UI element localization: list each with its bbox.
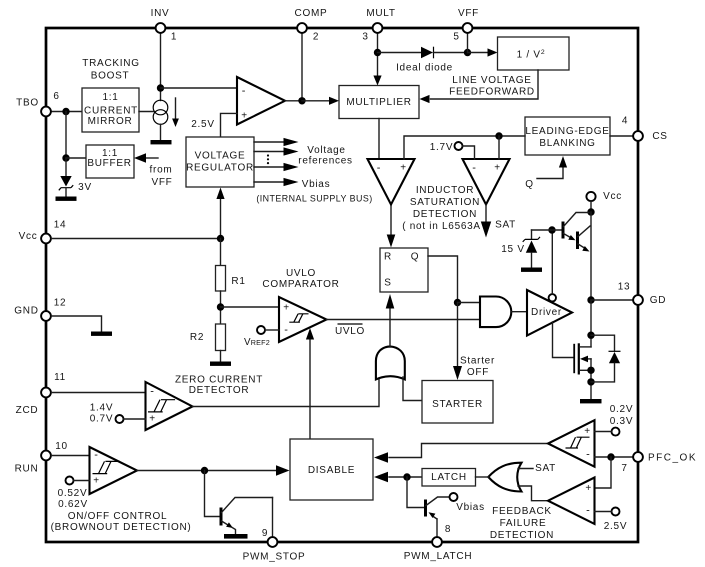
ground under 15V zener — [521, 268, 542, 272]
pin PFC_OK (7) — [621, 452, 697, 474]
svg-text:2.5V: 2.5V — [191, 119, 214, 130]
svg-text:9: 9 — [262, 528, 268, 539]
wire Q3 collector to PWM_STOP — [272, 498, 274, 538]
svg-text:4: 4 — [622, 115, 628, 126]
wire AND1 to driver — [511, 311, 527, 313]
wire TBO to current mirror — [52, 111, 83, 113]
node TBO junction — [62, 108, 69, 115]
svg-text:11: 11 — [54, 372, 66, 383]
wire current mirror to current source — [139, 111, 154, 113]
svg-text:LATCH: LATCH — [431, 472, 467, 483]
svg-text:PFC_OK: PFC_OK — [648, 453, 697, 464]
svg-text:COMPARATOR: COMPARATOR — [262, 279, 339, 290]
wire ZCD to comparator — [52, 392, 146, 394]
wire node to multiplier left with arrow — [302, 97, 339, 105]
wire SAT input to OR2 — [518, 463, 556, 474]
node R1/R2 divider — [217, 303, 224, 310]
label UVLO COMPARATOR — [262, 268, 339, 290]
svg-text:Vcc: Vcc — [19, 231, 38, 242]
svg-text:0.2V: 0.2V — [610, 404, 633, 415]
block MULTIPLIER — [339, 86, 419, 119]
svg-text:ON/OFF CONTROL: ON/OFF CONTROL — [68, 511, 168, 522]
transistor Q2 (lower NPN) — [578, 226, 591, 252]
svg-text:PWM_LATCH: PWM_LATCH — [404, 551, 473, 562]
svg-text:+: + — [584, 426, 591, 437]
svg-text:12: 12 — [54, 298, 67, 309]
node diode return junction — [587, 378, 594, 385]
svg-text:+: + — [400, 163, 407, 174]
svg-text:ZCD: ZCD — [16, 405, 39, 416]
ideal diode D1 — [396, 47, 453, 74]
svg-text:SATURATION: SATURATION — [410, 197, 480, 208]
svg-text:DETECTOR: DETECTOR — [189, 385, 250, 396]
resistor R1 — [216, 266, 246, 292]
svg-text:VREF2: VREF2 — [244, 337, 270, 348]
node Vcc junction — [217, 235, 224, 242]
svg-text:-: - — [150, 386, 154, 398]
wire node to buffer — [66, 157, 86, 159]
wire node to transistor base — [205, 471, 220, 517]
arrow SAT output — [481, 205, 516, 238]
wire source to ground — [590, 359, 592, 399]
reference VREF2 — [244, 326, 279, 348]
wire node to saturation comparator — [498, 136, 500, 159]
svg-text:1:1: 1:1 — [102, 92, 118, 103]
node GD junction — [587, 296, 594, 303]
svg-text:1: 1 — [171, 32, 177, 43]
wire R1 to node — [220, 291, 222, 324]
svg-text:+: + — [283, 303, 290, 314]
svg-text:GND: GND — [14, 306, 38, 317]
wire VFF node to 1/V2 block — [468, 48, 498, 56]
svg-text:-: - — [284, 324, 288, 336]
wire Vcc node down to R1 — [220, 239, 222, 266]
svg-text:+: + — [494, 163, 501, 174]
wire COMP vertical — [301, 33, 303, 101]
wire ZCD output to OR gate — [193, 377, 380, 407]
pin TBO (6) — [16, 91, 60, 116]
arrow Vbias — [254, 178, 330, 190]
svg-text:UVLO: UVLO — [335, 326, 365, 337]
op-amp E/A error amplifier — [237, 77, 285, 125]
svg-text:Q: Q — [411, 252, 420, 263]
flip-flop FF1 (PWM latch) — [380, 248, 428, 292]
svg-text:REGULATOR: REGULATOR — [186, 163, 254, 174]
wire VFF vertical — [467, 33, 469, 53]
comparator feedback failure (pointing left) — [548, 478, 595, 524]
svg-text:TBO: TBO — [16, 97, 39, 108]
wire DISABLE to UVLO comparator with arrow — [306, 328, 314, 439]
wire GND to ground — [52, 316, 102, 332]
label Voltage references — [298, 145, 352, 167]
svg-text:( not in L6563A ): ( not in L6563A ) — [402, 221, 488, 232]
wire ideal diode to VFF node — [434, 52, 468, 54]
block 1/V2 — [498, 37, 570, 70]
comparator ON/OFF control — [90, 447, 138, 494]
block 1:1 CURRENT MIRROR — [82, 88, 139, 132]
wire Q output — [428, 256, 458, 303]
svg-text:R1: R1 — [231, 276, 245, 287]
svg-text:13: 13 — [618, 282, 631, 293]
svg-text:FEEDFORWARD: FEEDFORWARD — [449, 87, 535, 98]
svg-text:BOOST: BOOST — [91, 70, 130, 81]
label UVLO net — [335, 324, 365, 337]
wire current source to ground — [160, 124, 162, 140]
pin VFF (5) — [453, 8, 479, 43]
node source junction — [587, 367, 594, 374]
wire LEB to comparators — [404, 136, 525, 159]
wire divider to UVLO comparator — [221, 306, 280, 308]
transistor Q4 (PWM_LATCH PNP) — [426, 497, 450, 537]
svg-text:DETECTION: DETECTION — [413, 209, 477, 220]
wire to GD pin — [591, 299, 633, 301]
wire PFC_OK sense — [595, 456, 633, 458]
svg-text:-: - — [586, 505, 590, 517]
node run output junction — [201, 467, 208, 474]
wire OR1 right input to STARTER — [403, 377, 422, 401]
svg-text:RUN: RUN — [15, 463, 39, 474]
svg-text:FAILURE: FAILURE — [500, 518, 547, 529]
label TRACKING BOOST — [82, 58, 139, 81]
wire PFC_OK comparator to DISABLE with arrow — [374, 444, 548, 463]
wire PWM comparator to R with arrow — [387, 205, 396, 248]
svg-text:3V: 3V — [78, 182, 92, 193]
svg-text:Q: Q — [525, 179, 534, 190]
block LEADING-EDGE BLANKING — [525, 117, 610, 155]
wire MULT vertical — [377, 33, 379, 77]
wire zener to ground — [65, 188, 67, 197]
wire Q node to STARTER with arrow — [453, 303, 495, 381]
current source I1 — [153, 98, 179, 127]
diode body D2 — [591, 335, 621, 382]
label ZERO CURRENT DETECTOR — [175, 375, 263, 397]
pin GND (12) — [14, 298, 66, 321]
reference 0.2V/0.3V — [595, 404, 634, 436]
svg-text:0.52V: 0.52V — [58, 488, 88, 499]
pin Vcc (14) — [19, 220, 67, 244]
wire latch node to Q4 — [407, 477, 424, 508]
node MULT junction — [374, 49, 381, 56]
svg-text:14: 14 — [54, 220, 67, 231]
wire node to feedback comparator — [595, 457, 612, 488]
ground GND pin — [91, 332, 112, 336]
comparator UVLO — [279, 297, 327, 342]
pin MULT (3) — [362, 8, 395, 43]
svg-text:5: 5 — [453, 32, 459, 43]
label INDUCTOR SATURATION DETECTION — [402, 185, 488, 232]
wire MULT node to ideal diode — [378, 52, 422, 54]
wire GD node to drain — [590, 300, 592, 347]
pin INV (1) — [151, 8, 178, 43]
svg-text:GD: GD — [650, 295, 666, 306]
svg-text:Driver: Driver — [531, 307, 562, 318]
svg-text:FEEDBACK: FEEDBACK — [492, 506, 552, 517]
wire totem output vertical — [590, 212, 592, 300]
label FEEDBACK FAILURE DETECTION — [490, 506, 554, 541]
node PFC_OK junction — [607, 453, 614, 460]
svg-text:UVLO: UVLO — [286, 268, 316, 279]
pin COMP (2) — [295, 8, 328, 43]
svg-text:0.62V: 0.62V — [58, 499, 88, 510]
svg-text:-: - — [242, 85, 246, 97]
wire feedback comparator to OR2 — [518, 486, 548, 501]
svg-text:+: + — [241, 111, 248, 122]
wire RUN comparator output to DISABLE with arrow — [137, 465, 290, 476]
wire Vcc to regulator with arrow — [216, 188, 224, 239]
svg-text:2.5V: 2.5V — [604, 521, 627, 532]
svg-text:S: S — [384, 278, 391, 289]
node drain/diode junction — [587, 332, 594, 339]
pin CS (4) — [622, 115, 668, 142]
svg-text:Starter: Starter — [460, 356, 495, 367]
arrow from VFF into buffer — [134, 153, 173, 188]
label LINE VOLTAGE FEEDFORWARD — [449, 75, 535, 98]
reference 1.7V — [430, 142, 475, 159]
node error amp output / COMP — [298, 97, 305, 104]
svg-text:ZERO CURRENT: ZERO CURRENT — [175, 375, 263, 386]
svg-text:INDUCTOR: INDUCTOR — [416, 185, 474, 196]
svg-text:-: - — [377, 162, 381, 174]
ground under current source — [151, 140, 172, 144]
wire driver bias vertical — [551, 230, 553, 294]
wire TBO node down to buffer node — [65, 112, 67, 159]
node Q junction — [454, 299, 461, 306]
wire multiplier output down — [378, 119, 380, 160]
block LATCH — [422, 469, 476, 487]
svg-text:Vbias: Vbias — [456, 502, 485, 513]
IC boundary frame — [46, 28, 638, 542]
wire INV vertical — [160, 33, 162, 101]
wire 1/V2 output to multiplier right — [420, 70, 539, 103]
svg-text:BUFFER: BUFFER — [87, 158, 131, 169]
node totem supply junction — [587, 208, 594, 215]
svg-text:6: 6 — [53, 91, 59, 102]
node base drive junction — [548, 226, 555, 233]
svg-text:CS: CS — [652, 131, 667, 142]
svg-text:DETECTION: DETECTION — [490, 530, 554, 541]
svg-text:references: references — [298, 156, 352, 167]
pin GD (13) — [618, 282, 667, 307]
svg-text:PWM_STOP: PWM_STOP — [243, 552, 306, 563]
wire Vcc rail — [52, 238, 221, 240]
svg-text:MULTIPLIER: MULTIPLIER — [346, 97, 411, 108]
buffer Driver — [527, 290, 572, 336]
svg-text:INV: INV — [151, 8, 170, 19]
transistor Q3 (PWM_STOP NPN) — [221, 498, 273, 535]
comparator inductor saturation (pointing down) — [463, 159, 510, 205]
svg-text:TRACKING: TRACKING — [82, 58, 139, 69]
svg-text:15 V: 15 V — [501, 244, 524, 255]
svg-text:7: 7 — [621, 463, 627, 474]
svg-text:1.4V: 1.4V — [90, 403, 113, 414]
wire error amp output to node — [285, 100, 302, 102]
svg-text:STARTER: STARTER — [432, 399, 483, 410]
svg-text:8: 8 — [445, 524, 451, 535]
svg-text:LEADING-EDGE: LEADING-EDGE — [525, 126, 609, 137]
reference 1.4V/0.7V — [90, 403, 146, 425]
wire OR1 output to S with arrow — [386, 294, 395, 347]
ground under Q3 — [224, 534, 248, 539]
zener 3V — [59, 158, 92, 193]
block STARTER — [422, 381, 493, 424]
block VOLTAGE REGULATOR — [186, 137, 254, 187]
svg-text:-: - — [586, 449, 590, 461]
wire UVLO output — [327, 319, 481, 321]
svg-text:VOLTAGE: VOLTAGE — [195, 151, 246, 162]
block 1:1 BUFFER — [86, 145, 134, 178]
pin PWM_LATCH (8) — [404, 524, 473, 562]
svg-text:2: 2 — [313, 32, 319, 43]
wire Q node to AND gate — [458, 302, 481, 304]
svg-text:VFF: VFF — [458, 8, 479, 19]
comparator zero current detector — [146, 382, 193, 430]
wire Vcc to totem pole — [590, 201, 592, 212]
svg-text:+: + — [93, 476, 100, 487]
svg-text:(BROWNOUT DETECTION): (BROWNOUT DETECTION) — [51, 522, 192, 533]
block DISABLE — [290, 439, 373, 500]
resistor R2 — [190, 324, 226, 351]
svg-text:R2: R2 — [190, 332, 204, 343]
wire LEB to CS pin — [610, 135, 633, 137]
wire Q to LEB with arrow — [525, 156, 567, 190]
wire OR2 output to LATCH — [476, 476, 489, 478]
svg-text:3: 3 — [362, 32, 368, 43]
svg-text:-: - — [94, 449, 98, 461]
wire base node — [532, 229, 564, 231]
node latch input junction — [403, 473, 410, 480]
svg-text:1.7V: 1.7V — [430, 142, 453, 153]
pin Vcc terminal (driver supply) — [586, 191, 622, 202]
svg-text:LINE VOLTAGE: LINE VOLTAGE — [452, 75, 531, 86]
label ON/OFF CONTROL — [51, 511, 192, 533]
wire 2.5V reference to error amp + input — [191, 113, 237, 137]
pin RUN (10) — [15, 441, 68, 474]
svg-text:Ideal diode: Ideal diode — [396, 63, 453, 74]
svg-text:MULT: MULT — [366, 8, 395, 19]
reference 2.5V — [595, 508, 628, 533]
svg-text:0.3V: 0.3V — [610, 416, 633, 427]
svg-text:CURRENT: CURRENT — [84, 106, 138, 117]
wire INV to error amp inverting input — [161, 87, 238, 89]
svg-text:MIRROR: MIRROR — [88, 116, 133, 127]
svg-text:from: from — [150, 165, 173, 176]
reference 0.52V/0.62V — [58, 477, 90, 511]
wire LATCH to DISABLE with arrow — [374, 472, 422, 483]
svg-text:0.7V: 0.7V — [90, 414, 113, 425]
svg-text:BLANKING: BLANKING — [539, 138, 595, 149]
svg-text:Voltage: Voltage — [307, 145, 345, 156]
node buffer junction — [62, 154, 69, 161]
MOSFET M1 — [574, 343, 591, 374]
svg-text:(INTERNAL SUPPLY BUS): (INTERNAL SUPPLY BUS) — [256, 194, 372, 204]
svg-text:COMP: COMP — [295, 8, 328, 19]
label internal supply bus — [256, 194, 372, 204]
transistor Q1 (upper NPN) — [563, 213, 589, 241]
comparator PWM (pointing down) — [368, 159, 415, 205]
svg-text:OFF: OFF — [467, 367, 489, 378]
or-gate OR1 (set input) — [376, 346, 405, 379]
comparator PFC_OK (pointing left) — [548, 420, 595, 467]
arrow MULT into multiplier top — [373, 76, 381, 86]
wire RUN to comparator — [52, 455, 90, 457]
svg-text:Vbias: Vbias — [302, 179, 331, 190]
ground under R2 — [210, 362, 231, 366]
terminal Vbias — [450, 493, 485, 513]
svg-text:VFF: VFF — [151, 177, 172, 188]
zener 15V — [501, 230, 540, 268]
ground under MOSFET — [580, 399, 602, 403]
wire driver to MOSFET gate — [553, 322, 575, 358]
pin ZCD (11) — [16, 372, 66, 416]
svg-text:SAT: SAT — [535, 463, 556, 474]
svg-text:SAT: SAT — [495, 220, 516, 231]
pin PWM_STOP (9) — [243, 528, 306, 563]
wire R2 to ground — [220, 351, 222, 362]
svg-text:Vcc: Vcc — [603, 191, 622, 202]
svg-text:+: + — [149, 414, 156, 425]
or-gate OR2 (latch input) — [488, 463, 521, 492]
svg-text:DISABLE: DISABLE — [308, 465, 355, 476]
node VFF junction — [464, 49, 471, 56]
node CS sense junction — [495, 132, 502, 139]
svg-text:R: R — [384, 252, 392, 263]
svg-text:+: + — [585, 483, 592, 494]
and-gate AND1 — [480, 297, 511, 328]
arrows voltage references — [254, 138, 299, 171]
svg-text:10: 10 — [55, 441, 68, 452]
ground under 3V zener — [56, 197, 77, 201]
svg-text:-: - — [472, 162, 476, 174]
node INV junction — [157, 84, 164, 91]
